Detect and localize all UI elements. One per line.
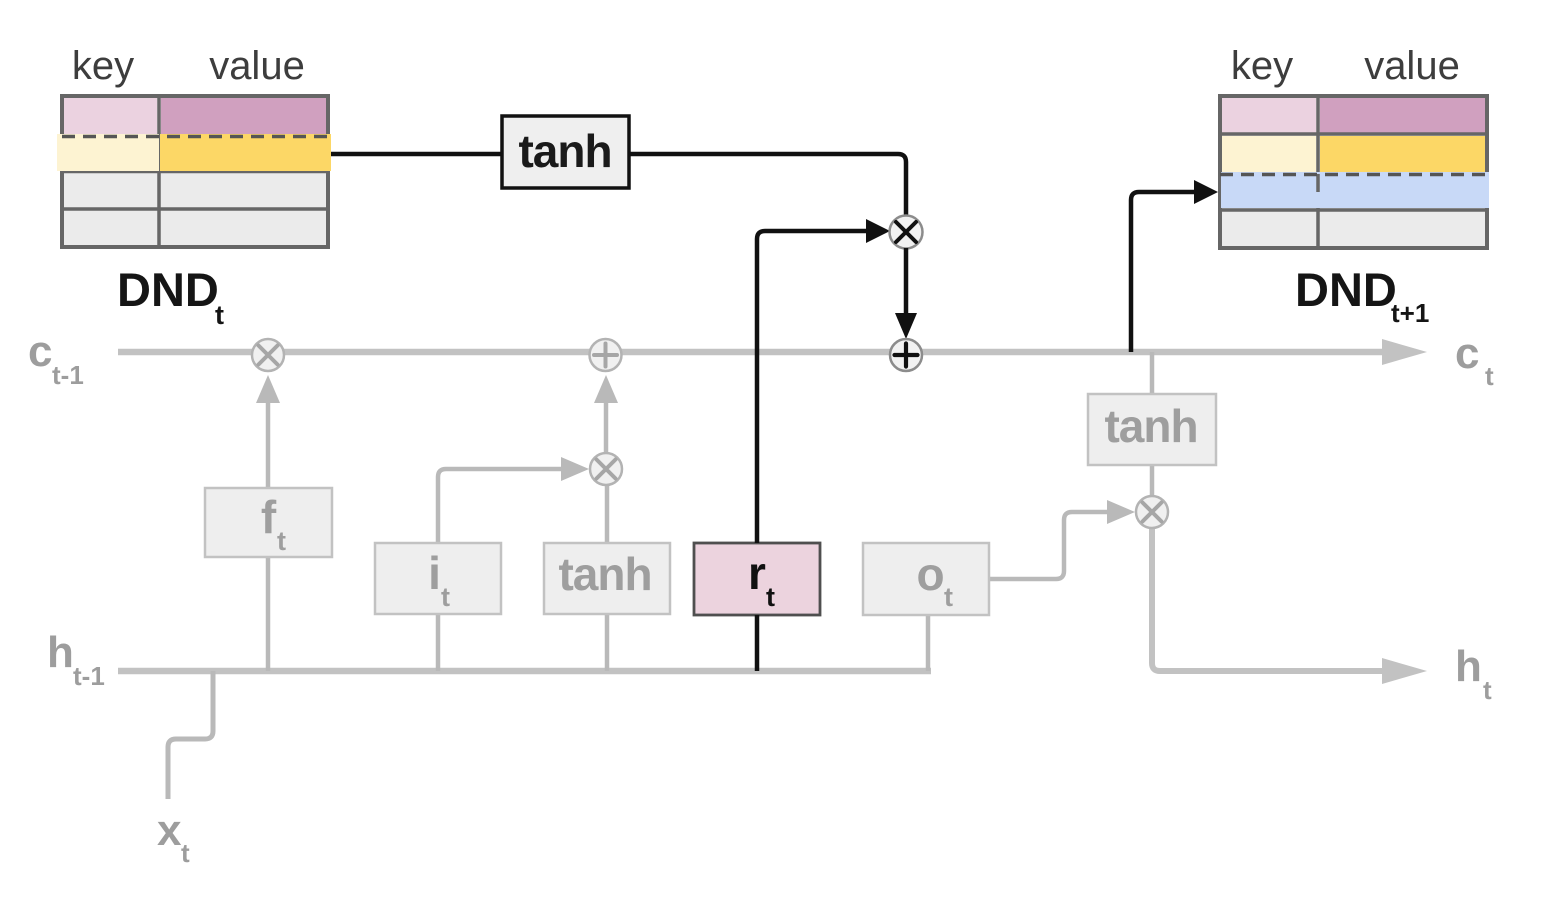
row line 3 <box>1220 208 1487 212</box>
row1 key cell (light pink) <box>64 98 157 134</box>
wire h-line (h_{t-1} horizontal) <box>118 668 931 675</box>
svg-text:c: c <box>1455 329 1479 378</box>
svg-text:key: key <box>1231 44 1293 88</box>
svg-text:x: x <box>157 806 182 855</box>
left DND table <box>57 96 331 247</box>
label DND_t <box>117 263 224 330</box>
svg-text:t: t <box>1483 675 1492 705</box>
svg-text:tanh: tanh <box>558 548 651 600</box>
svg-text:t: t <box>1485 361 1494 391</box>
wire yellow row to tanh box (black) <box>330 152 502 157</box>
box r_t (pink, active) <box>694 543 820 615</box>
wire gate tanh to gray multiply 2 <box>605 486 610 543</box>
gray plus (on c-line above i_t) <box>590 339 622 371</box>
svg-text:t: t <box>766 582 775 612</box>
column divider <box>157 96 161 247</box>
column divider <box>1316 96 1320 248</box>
svg-text:value: value <box>1364 44 1460 88</box>
svg-text:t: t <box>441 582 450 612</box>
wire tanh box to black multiply <box>629 154 906 215</box>
row1 value cell (mauve) <box>1320 98 1485 133</box>
svg-text:i: i <box>428 547 440 599</box>
row line 3 <box>62 207 328 211</box>
black plus (on c-line) <box>890 339 922 371</box>
svg-text:t: t <box>277 526 286 556</box>
highlighted row2 value (yellow) <box>160 134 331 171</box>
gray multiply 1 (on c-line above f_t) <box>252 339 284 371</box>
svg-text:c: c <box>28 327 52 376</box>
wire r_t up to black multiply (black, through box) <box>757 219 890 671</box>
svg-text:t: t <box>215 300 224 330</box>
label h_{t-1} <box>47 628 105 691</box>
svg-text:t: t <box>944 582 953 612</box>
box f_t <box>205 488 332 557</box>
box o_t <box>863 543 989 615</box>
wire o_t to gray multiply 3 (right, up, arrow) <box>989 500 1135 579</box>
label c_{t-1} <box>28 327 84 390</box>
svg-text:DND: DND <box>117 263 219 316</box>
svg-text:key: key <box>72 44 134 88</box>
svg-text:t: t <box>181 838 190 868</box>
gray multiply 2 (between i_t and gray plus) <box>590 453 622 485</box>
dashed selection line above row2 <box>62 135 330 139</box>
wire h-line to gate tanh <box>605 614 610 671</box>
wire i_t to gray multiply 2 (up then right, arrow) <box>438 457 589 543</box>
row2 value cell (yellow) <box>1320 136 1485 173</box>
label x_t <box>157 806 190 868</box>
svg-text:DND: DND <box>1295 263 1397 316</box>
label c_t <box>1455 329 1494 391</box>
svg-text:tanh: tanh <box>518 125 611 177</box>
black multiply <box>890 216 923 249</box>
dashed selection line above row3 <box>1220 173 1490 177</box>
gray multiply 3 (below right tanh) <box>1136 496 1168 528</box>
wire h-line to f_t <box>266 557 271 671</box>
svg-text:tanh: tanh <box>1104 400 1197 452</box>
svg-text:h: h <box>1455 642 1482 691</box>
wire c-line to right tanh box <box>1150 352 1155 394</box>
svg-text:value: value <box>209 44 305 88</box>
divider stub in blue row <box>1316 174 1320 192</box>
wire h output (down from gray multiply to h_t arrow) <box>1152 528 1427 684</box>
highlighted row3 (blue, sticks out right) <box>1221 172 1489 208</box>
row line 2 <box>62 170 328 174</box>
svg-text:t-1: t-1 <box>73 661 105 691</box>
label r_t (black) <box>748 547 775 612</box>
box gate tanh <box>544 543 670 614</box>
wire x_t input <box>168 671 213 799</box>
table base <box>62 96 328 247</box>
box right tanh (gray) <box>1088 394 1216 465</box>
svg-text:t+1: t+1 <box>1391 298 1429 328</box>
row2 key cell (cream) <box>1222 136 1316 173</box>
svg-text:r: r <box>748 547 766 599</box>
label DND_{t+1} <box>1295 263 1429 328</box>
box tanh (black, top) <box>502 116 629 188</box>
label h_t <box>1455 642 1492 705</box>
row1 value cell (mauve) <box>161 98 326 134</box>
svg-text:h: h <box>47 628 74 677</box>
svg-text:o: o <box>916 548 943 600</box>
svg-text:f: f <box>261 491 277 543</box>
wire black multiply down to black plus (arrow) <box>895 248 917 339</box>
wire f_t to gray multiply 1 (arrow up) <box>256 375 280 488</box>
highlighted row2 key (cream, sticks out left) <box>57 134 159 171</box>
table base <box>1220 96 1487 248</box>
wire c-line (c_{t-1} to c_t) <box>118 339 1427 365</box>
box i_t <box>375 543 501 614</box>
wire h-line to i_t <box>436 614 441 671</box>
svg-text:t-1: t-1 <box>52 360 84 390</box>
wire c-line up to DND_{t+1} (black, arrow right) <box>1131 180 1218 352</box>
row line 1 <box>1220 132 1487 136</box>
wire h-line to o_t <box>926 615 931 671</box>
wire gray multiply 2 to gray plus (arrow up) <box>594 375 618 453</box>
right DND table <box>1220 96 1490 248</box>
wire right tanh box to gray multiply 3 <box>1150 465 1155 497</box>
row1 key cell (light pink) <box>1222 98 1316 133</box>
